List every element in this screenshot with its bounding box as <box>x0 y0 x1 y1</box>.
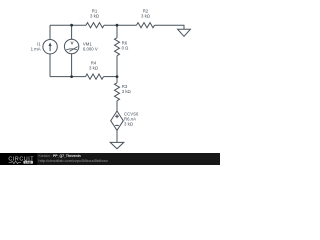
svg-text:LAB: LAB <box>25 160 31 164</box>
wire node B to R6 <box>116 25 118 38</box>
resistor R4 <box>86 60 104 79</box>
ground bottom <box>110 142 124 148</box>
node D dot (bottom voltmeter junction) <box>70 75 73 78</box>
footer bar <box>0 153 220 165</box>
wire R3 to CCVS6 <box>116 101 118 111</box>
wire left branch top <box>49 25 51 39</box>
svg-text:1 mA: 1 mA <box>31 46 41 51</box>
wire bottom left <box>50 76 86 78</box>
wire voltmeter bottom lead <box>71 54 73 77</box>
wire R1 to node B <box>104 24 137 26</box>
wire node C to R3 <box>116 77 118 83</box>
resistor R6 <box>115 38 130 56</box>
svg-text:0 Ω: 0 Ω <box>122 45 130 50</box>
wire R2 to ground corner <box>155 25 185 29</box>
node A dot (top voltmeter junction) <box>70 24 73 27</box>
footer logo LAB badge <box>23 161 33 164</box>
current source I1 <box>31 40 58 54</box>
svg-text:3 kΩ: 3 kΩ <box>141 14 151 19</box>
svg-text:3 kΩ: 3 kΩ <box>90 14 100 19</box>
resistor R3 <box>115 83 132 101</box>
svg-text:6.000 V: 6.000 V <box>83 46 98 51</box>
wire CCVS6 to ground <box>116 130 118 142</box>
svg-text:3 kΩ: 3 kΩ <box>122 89 132 94</box>
svg-text:3 kΩ: 3 kΩ <box>124 121 134 126</box>
wire top-left horizontal <box>50 24 86 26</box>
wire R6 to node C <box>116 56 118 77</box>
wire voltmeter top lead <box>71 25 73 39</box>
svg-text:3 kΩ: 3 kΩ <box>89 65 99 70</box>
ground right <box>178 29 191 36</box>
voltmeter VM1 <box>64 39 97 53</box>
wire R4 to node C <box>104 76 118 78</box>
wire left branch bottom <box>49 54 51 77</box>
controlled source CCVS6 <box>111 111 139 130</box>
node B dot (top R6 junction) <box>116 24 119 27</box>
svg-text:http://circuitlab.com/czpc/56k: http://circuitlab.com/czpc/56kcud5b8vwz <box>39 158 108 163</box>
footer logo background <box>0 153 37 165</box>
resistor R2 <box>137 8 155 27</box>
footer logo resistor zigzag <box>9 161 21 163</box>
resistor R1 <box>86 8 104 27</box>
node C dot (bottom R6/R3 junction) <box>116 75 119 78</box>
